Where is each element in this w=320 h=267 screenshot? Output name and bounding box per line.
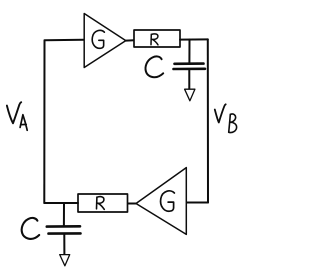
capacitor C2 (bottom) <box>47 226 81 233</box>
wire R2 to bottom-left corner <box>44 202 78 204</box>
resistor R2 (bottom) <box>78 194 128 212</box>
label VA <box>7 102 21 123</box>
wire C1 to ground <box>188 69 190 89</box>
wire U2 output to R2 <box>128 203 137 205</box>
wire capacitor C1 branch <box>188 40 190 63</box>
wire bottom-right horizontal <box>187 202 209 204</box>
resistor R1 (top) <box>134 30 180 47</box>
label R (R2 value) <box>97 197 105 210</box>
wire C2 to ground <box>63 234 65 255</box>
wire R1 to top-right corner <box>180 38 208 40</box>
label VB <box>215 104 226 122</box>
wire capacitor C2 branch <box>63 203 65 226</box>
label R (R1 value) <box>151 34 158 45</box>
label C (C2) <box>22 218 40 239</box>
wire U1 output to R1 <box>126 39 134 41</box>
wire right vertical (node VB) <box>207 39 209 202</box>
op-amp U2 (bottom gain block G) <box>136 168 186 235</box>
wire top-left horizontal <box>45 39 85 42</box>
label G (U2 gain) <box>161 191 175 211</box>
ground (top) <box>185 89 195 101</box>
wire left vertical (node VA) <box>43 41 45 204</box>
label G (U1 gain) <box>92 30 104 48</box>
capacitor C1 (top) <box>174 64 206 69</box>
ground (bottom) <box>60 255 70 266</box>
op-amp U1 (top gain block G) <box>84 14 126 68</box>
label C (C1) <box>146 56 164 77</box>
